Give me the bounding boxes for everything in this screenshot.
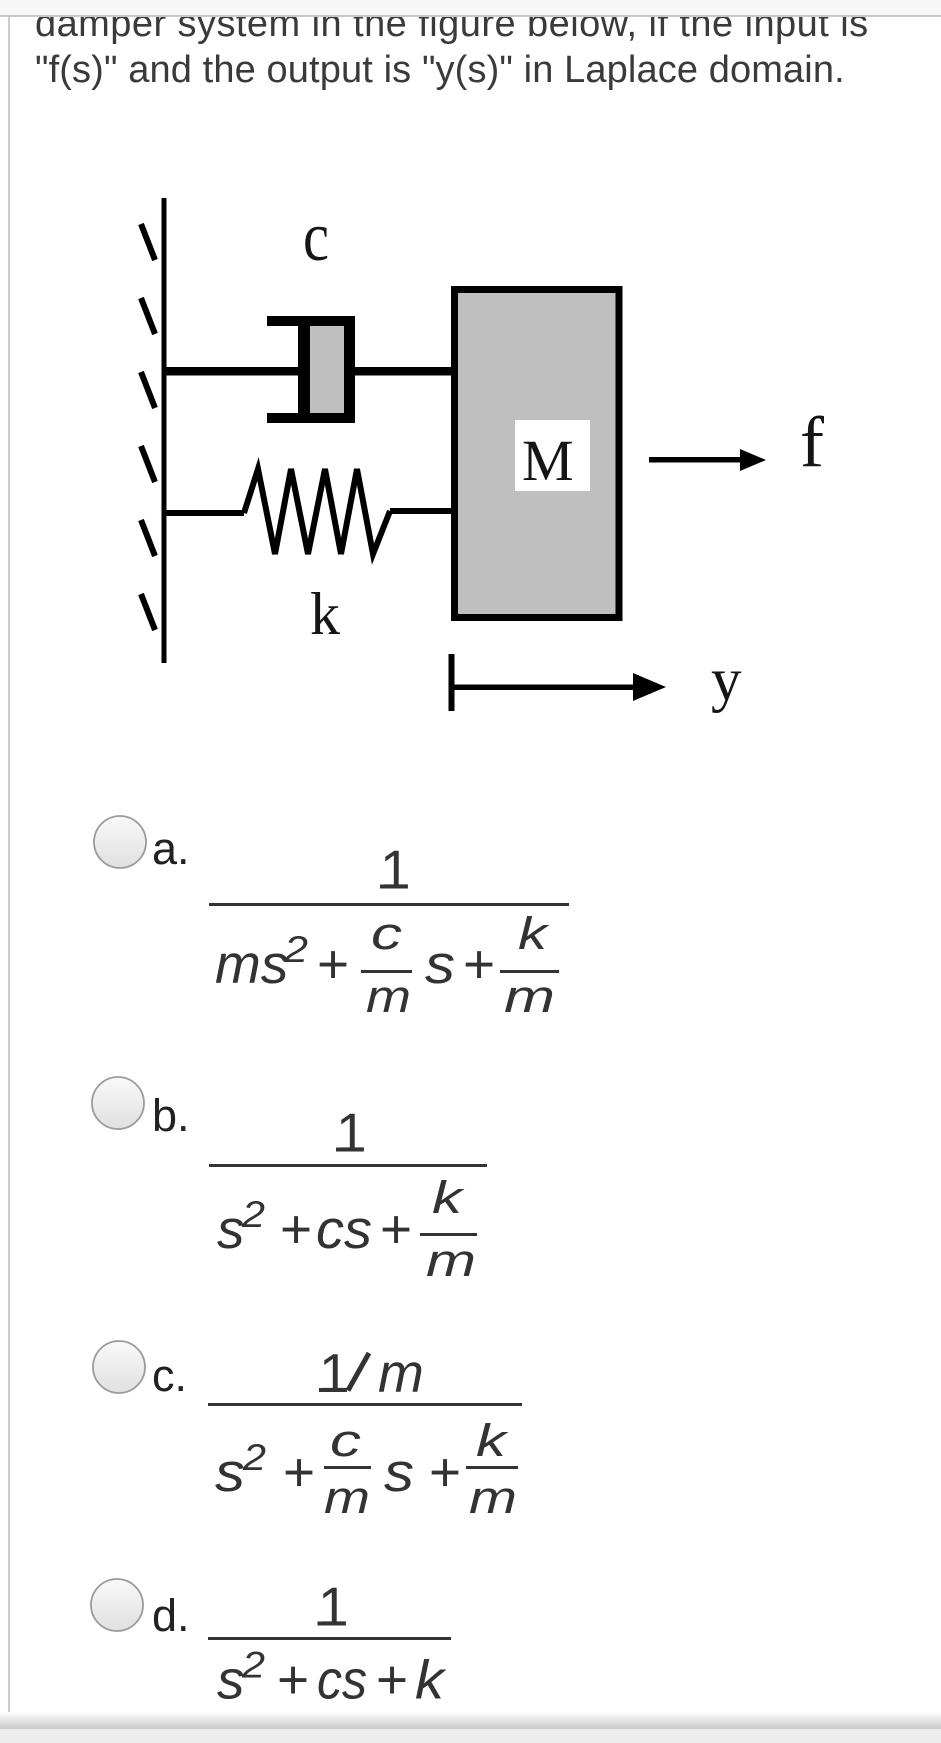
svg-text:m: m [324, 1472, 370, 1523]
svg-text:c: c [330, 1415, 361, 1466]
svg-text:1: 1 [380, 839, 411, 901]
svg-text:cs: cs [317, 1649, 367, 1711]
svg-text:1: 1 [319, 1342, 350, 1404]
svg-text:f: f [800, 402, 824, 482]
svg-text:s: s [217, 1649, 245, 1711]
svg-text:"f(s)" and the output is "y(s): "f(s)" and the output is "y(s)" in Lapla… [35, 49, 845, 91]
svg-text:+: + [429, 1441, 461, 1503]
spring left lead [164, 510, 244, 516]
svg-text:+: + [277, 1649, 309, 1711]
svg-text:m: m [366, 971, 411, 1022]
svg-text:y: y [711, 647, 742, 714]
svg-text:m: m [504, 971, 555, 1022]
force arrow head [740, 449, 766, 471]
svg-text:+: + [463, 933, 495, 995]
mass M block [455, 290, 620, 618]
svg-text:1: 1 [336, 1102, 367, 1164]
damper rod left [164, 367, 298, 376]
svg-text:c.: c. [152, 1350, 187, 1401]
svg-text:k: k [310, 581, 340, 647]
svg-text:+: + [376, 1649, 408, 1711]
svg-text:k: k [415, 1649, 447, 1711]
svg-text:s: s [217, 1198, 245, 1260]
y axis arrow head [633, 673, 666, 701]
spring zigzag [244, 469, 390, 554]
svg-text:1: 1 [318, 1576, 349, 1638]
force arrow shaft [649, 457, 741, 463]
svg-text:2: 2 [242, 1437, 267, 1478]
svg-text:c: c [371, 908, 402, 959]
svg-text:2: 2 [241, 1645, 266, 1686]
wall hatch 5 [141, 520, 155, 556]
svg-text:k: k [476, 1415, 509, 1466]
svg-text:2: 2 [283, 929, 309, 970]
wall hatch 3 [141, 372, 155, 408]
damper cylinder top plate [267, 316, 355, 326]
svg-text:b.: b. [152, 1090, 190, 1141]
damper cylinder right wall [344, 316, 355, 423]
damper piston plate [298, 322, 310, 418]
svg-text:ms: ms [215, 933, 288, 995]
y axis arrow shaft [451, 685, 634, 691]
svg-text:s: s [425, 933, 455, 995]
svg-text:a.: a. [152, 823, 190, 874]
wall hatch 4 [141, 446, 155, 482]
spring right lead [390, 508, 454, 514]
wall hatch 1 [141, 224, 155, 260]
svg-text:m: m [426, 1235, 476, 1286]
svg-text:+: + [317, 933, 349, 995]
svg-text:k: k [518, 908, 550, 959]
svg-text:+: + [380, 1198, 412, 1260]
svg-text:M: M [522, 428, 574, 493]
svg-text:k: k [432, 1172, 465, 1223]
svg-text:s: s [384, 1441, 414, 1503]
svg-text:+: + [280, 1198, 312, 1260]
mass label white box [515, 420, 590, 491]
svg-text:m: m [378, 1342, 424, 1404]
wall hatch 2 [141, 298, 155, 334]
svg-text:cs: cs [316, 1198, 372, 1260]
wall [162, 198, 167, 663]
damper rod right [355, 367, 454, 376]
svg-text:s: s [215, 1441, 245, 1503]
svg-text:m: m [469, 1472, 517, 1523]
y axis tick [449, 654, 455, 711]
svg-text:c: c [303, 199, 329, 276]
svg-text:+: + [283, 1441, 315, 1503]
damper cylinder bottom plate [267, 413, 355, 423]
damper gray fill [310, 326, 344, 413]
svg-text:2: 2 [241, 1194, 266, 1235]
wall hatch 6 [141, 594, 155, 630]
svg-text:d.: d. [152, 1590, 190, 1641]
